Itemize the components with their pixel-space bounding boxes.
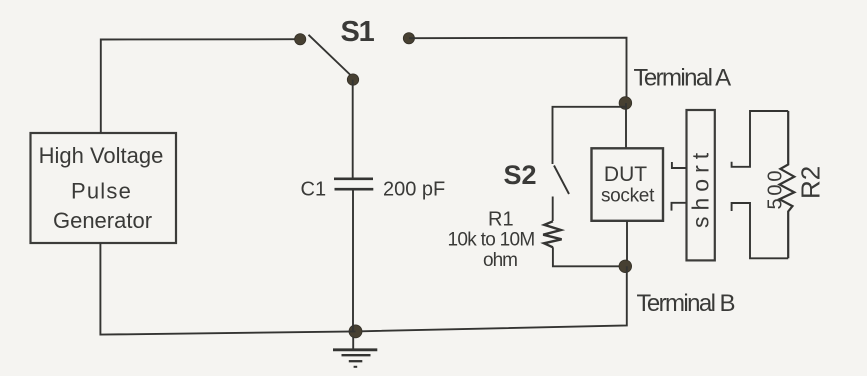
- wire: S1 pole to C1: [352, 80, 354, 178]
- jumper bar "short": [687, 110, 715, 260]
- svg-text:R1: R1: [488, 209, 514, 231]
- high voltage pulse generator: [31, 133, 177, 243]
- node Terminal B: [619, 260, 632, 273]
- svg-text:Terminal A: Terminal A: [634, 65, 732, 92]
- wire: DUT socket to Terminal B: [626, 221, 628, 266]
- wire: Terminal A to DUT socket: [625, 103, 627, 148]
- wire: generator top to S1 left contact: [101, 39, 300, 133]
- label: High Voltage Pulse Generator: [39, 143, 164, 233]
- switch S2: [554, 166, 569, 195]
- svg-text:S1: S1: [341, 16, 375, 48]
- svg-text:10k to 10M: 10k to 10M: [448, 230, 535, 251]
- label DUT socket: [601, 163, 655, 207]
- svg-text:Pulse: Pulse: [71, 179, 132, 204]
- resistor R2: [780, 111, 795, 258]
- svg-text:Terminal B: Terminal B: [637, 290, 735, 317]
- svg-text:DUT: DUT: [604, 163, 647, 186]
- svg-text:ohm: ohm: [483, 250, 517, 271]
- node Terminal A: [619, 97, 632, 110]
- switch S1: [295, 33, 415, 86]
- wire: Terminal A to switch S2: [553, 107, 626, 164]
- wire: short bar to R2 (bottom hook): [732, 203, 789, 258]
- svg-text:500: 500: [765, 168, 787, 210]
- svg-text:socket: socket: [601, 186, 655, 207]
- DUT socket: [592, 148, 664, 221]
- svg-text:R2: R2: [796, 166, 826, 199]
- svg-text:short: short: [688, 147, 714, 228]
- svg-text:200 pF: 200 pF: [383, 178, 445, 200]
- svg-text:S2: S2: [504, 160, 537, 190]
- wire: S1 right contact to Terminal A: [409, 38, 627, 103]
- svg-text:High Voltage: High Voltage: [39, 143, 164, 168]
- wire: S2 to R1: [552, 197, 554, 222]
- node: ground junction: [349, 325, 362, 338]
- wire: R1 to Terminal B: [553, 247, 625, 266]
- capacitor C1: [334, 179, 373, 189]
- ground: [333, 337, 377, 368]
- resistor R1: [543, 221, 561, 247]
- wire: ground junction to generator bottom: [100, 243, 355, 335]
- connector stub: DUT socket to short bar (top): [672, 162, 686, 168]
- svg-text:C1: C1: [301, 178, 327, 200]
- wire: Terminal B to ground junction: [356, 266, 627, 331]
- svg-text:Generator: Generator: [53, 208, 152, 233]
- wire: short bar to R2 (top hook): [732, 111, 789, 167]
- wire: C1 to ground junction: [352, 190, 354, 331]
- connector stub: DUT socket to short bar (bottom): [672, 203, 687, 211]
